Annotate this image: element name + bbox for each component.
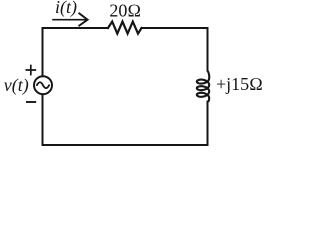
current arrow i(t) [53,19,86,21]
svg-text:+j15Ω: +j15Ω [216,74,263,94]
source sine wave [37,82,49,88]
svg-text:20Ω: 20Ω [109,1,141,21]
wire left upper segment [42,28,44,76]
resistor R (20 ohm) zigzag [108,22,142,34]
wire right lower segment [207,102,209,146]
wire bottom segment [43,144,208,146]
wire left lower segment [42,94,44,145]
wire right upper segment [207,28,209,71]
svg-text:v(t): v(t) [4,75,29,96]
wire top-left segment [43,27,109,29]
inductor L (+j15 ohm) coil [197,71,209,102]
source V1 circle [34,76,52,94]
svg-text:i(t): i(t) [55,0,77,18]
minus sign of source [27,101,35,103]
wire top-right segment [142,27,208,29]
plus sign of source [26,66,35,75]
